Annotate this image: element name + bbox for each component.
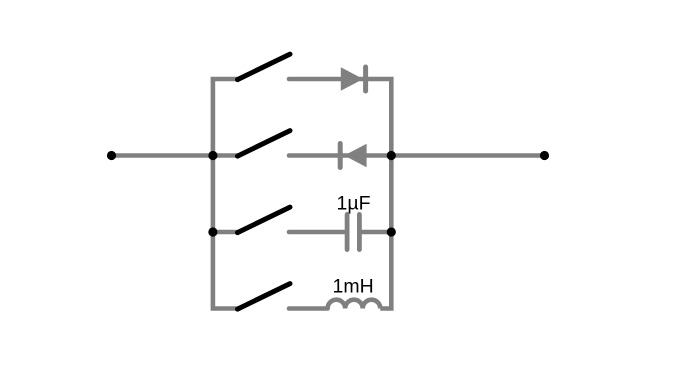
node left bus branch 3 junction: [208, 227, 217, 236]
wire left bus stub branch 3: [213, 230, 238, 235]
wire branch 2 switch to diode: [289, 153, 391, 158]
wire left bus: [213, 79, 238, 309]
node left terminal: [107, 151, 116, 160]
diode D2 cathode bar: [338, 144, 343, 168]
wire branch 1 switch to diode: [289, 77, 366, 82]
switch SW4 blade: [238, 284, 291, 310]
node right bus branch 2 junction: [387, 151, 396, 160]
wire branch 3 switch to capacitor: [289, 230, 347, 235]
wire left terminal to left bus: [112, 153, 213, 158]
node left bus branch 2 junction: [208, 151, 217, 160]
wire right bus: [366, 79, 392, 309]
capacitor C1 left plate: [345, 214, 350, 249]
wire left bus stub branch 2: [213, 153, 238, 158]
diode D2 triangle: [344, 144, 366, 168]
node right bus branch 3 junction: [387, 227, 396, 236]
switch SW1 blade: [238, 54, 291, 80]
capacitor C1 right plate: [357, 214, 362, 249]
switch SW2 blade: [238, 131, 291, 157]
svg-text:1mH: 1mH: [333, 276, 374, 298]
diode D1 triangle: [341, 67, 363, 91]
wire branch 3 capacitor to right bus: [359, 230, 391, 235]
diode D1 cathode bar: [363, 67, 368, 91]
wire right bus to right terminal: [391, 153, 544, 158]
inductor L1: [328, 300, 381, 309]
node right terminal: [540, 151, 549, 160]
svg-text:1µF: 1µF: [337, 192, 371, 214]
switch SW3 blade: [238, 207, 291, 233]
wire branch 4 switch to inductor: [289, 306, 328, 311]
